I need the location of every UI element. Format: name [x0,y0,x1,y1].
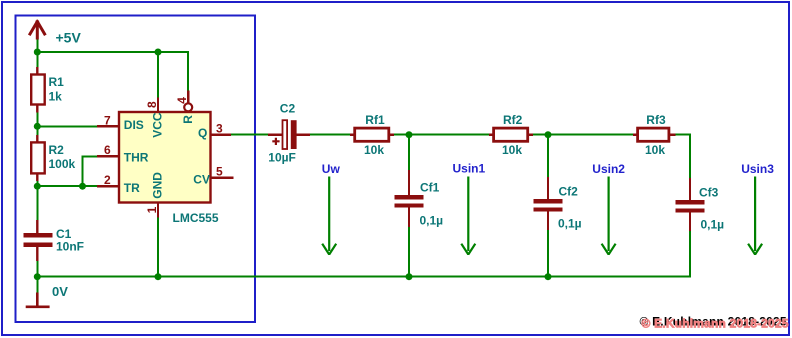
svg-text:Rf3: Rf3 [646,113,666,127]
wire Cf1 top [408,135,410,171]
junction +5V [34,49,41,56]
inner frame [16,16,256,323]
svg-text:0V: 0V [52,284,68,299]
wire C1 top [36,186,38,220]
wire C1 bottom [36,261,38,277]
svg-text:C2: C2 [280,102,296,116]
pin 8 VCC [145,98,164,138]
pin 6 THR [97,143,149,164]
svg-text:TR: TR [124,181,140,195]
junction node Usin2 [545,131,552,138]
wire top rail [37,51,188,53]
pin 5 CV [193,164,233,186]
svg-text:VCC: VCC [150,112,164,138]
node Uw arrow [322,162,341,255]
svg-text:0,1µ: 0,1µ [701,217,725,231]
wire R1 top [36,52,38,68]
svg-text:DIS: DIS [124,118,144,132]
junction GND pin [155,273,162,280]
svg-text:8: 8 [145,101,159,108]
supply +5V symbol [30,22,81,46]
svg-text:Cf3: Cf3 [699,186,719,200]
node Usin3 arrow [741,162,774,255]
svg-text:LMC555: LMC555 [173,211,219,225]
wire Rf1 to Rf2 [393,134,489,136]
wire C2 to Rf1 [310,134,351,136]
wire Rf2 to Rf3 [532,134,633,136]
svg-text:Q: Q [198,126,207,140]
wire Cf2 bottom [547,230,549,277]
pin 7 DIS [97,114,144,133]
junction 0V left [34,273,41,280]
junction R1/DIS [34,123,41,130]
svg-text:Usin1: Usin1 [453,162,486,176]
svg-text:0,1µ: 0,1µ [558,217,582,231]
svg-text:R1: R1 [49,75,65,89]
resistor Rf1 [350,113,394,157]
wire Cf3 drop [689,134,691,179]
svg-text:4: 4 [175,97,189,104]
svg-text:2: 2 [104,173,111,187]
wire Cf1 bottom [408,227,410,277]
junction VCC tap [155,49,162,56]
resistor R2 [31,135,75,181]
op-amp U1 LMC555 body [119,112,219,225]
svg-text:0,1µ: 0,1µ [420,213,444,227]
svg-text:R2: R2 [49,143,65,157]
wire Cf3 bottom [689,231,691,278]
node Usin1 arrow [453,162,486,255]
pin 1 GND [145,172,164,218]
wire pin6 [82,155,98,157]
junction R2/TR [34,183,41,190]
wire Q out [231,134,269,136]
pin 2 TR [97,173,140,195]
svg-text:Usin3: Usin3 [741,162,774,176]
wire VCC drop [157,52,159,98]
svg-text:5: 5 [216,164,223,178]
wire ground stem [36,277,38,293]
svg-text:Rf1: Rf1 [365,113,385,127]
svg-text:10µF: 10µF [268,151,296,165]
wire +5V stem [36,37,38,53]
watermark copyright [640,315,789,331]
svg-text:Uw: Uw [322,162,341,176]
svg-text:100k: 100k [49,157,76,171]
svg-text:1: 1 [145,206,159,213]
wire RESET drop [187,51,189,91]
pin 4 R reset [175,91,195,124]
junction node Usin1 [406,131,413,138]
wire 0V rail [37,276,690,278]
capacitor Cf2 [534,177,582,231]
svg-text:1k: 1k [49,89,63,103]
svg-text:10nF: 10nF [56,240,84,254]
wire R2 bottom [36,181,38,187]
svg-text:R: R [181,115,195,124]
wire R1 bottom [36,112,38,126]
svg-text:+5V: +5V [56,30,82,46]
svg-text:Cf1: Cf1 [420,180,440,194]
svg-text:CV: CV [193,172,210,186]
svg-text:Usin2: Usin2 [592,162,625,176]
capacitor Cf3 [676,178,725,231]
capacitor Cf1 [395,170,444,227]
pin 3 Q [198,121,231,140]
svg-text:10k: 10k [364,143,384,157]
resistor Rf3 [633,113,676,157]
svg-text:3: 3 [216,121,223,135]
ground [26,293,50,307]
svg-text:6: 6 [104,143,111,157]
wire pin2 [37,185,97,187]
junction Cf2 0V [545,273,552,280]
junction THR/TR [79,183,86,190]
svg-text:7: 7 [104,114,111,128]
capacitor C1 [24,220,84,261]
junction Cf1 0V [406,273,413,280]
svg-text:GND: GND [150,172,164,199]
svg-text:10k: 10k [645,143,665,157]
wire THR-TR link [82,156,84,186]
wire R2 top [36,126,38,135]
svg-text:© E.Kuhlmann 2018-2025: © E.Kuhlmann 2018-2025 [642,316,789,330]
node Usin2 arrow [592,162,625,255]
wire pin7 [37,125,97,127]
svg-text:THR: THR [124,150,149,164]
net label 0V [52,284,68,299]
capacitor C2 polarized [268,102,310,165]
resistor R1 [31,67,64,113]
svg-text:10k: 10k [502,143,522,157]
resistor Rf2 [489,113,533,157]
svg-text:Rf2: Rf2 [503,113,523,127]
svg-text:Cf2: Cf2 [559,184,579,198]
wire Cf2 top [547,135,549,178]
wire pin1 to 0V [157,217,159,277]
wire Rf3 to corner [675,134,690,136]
